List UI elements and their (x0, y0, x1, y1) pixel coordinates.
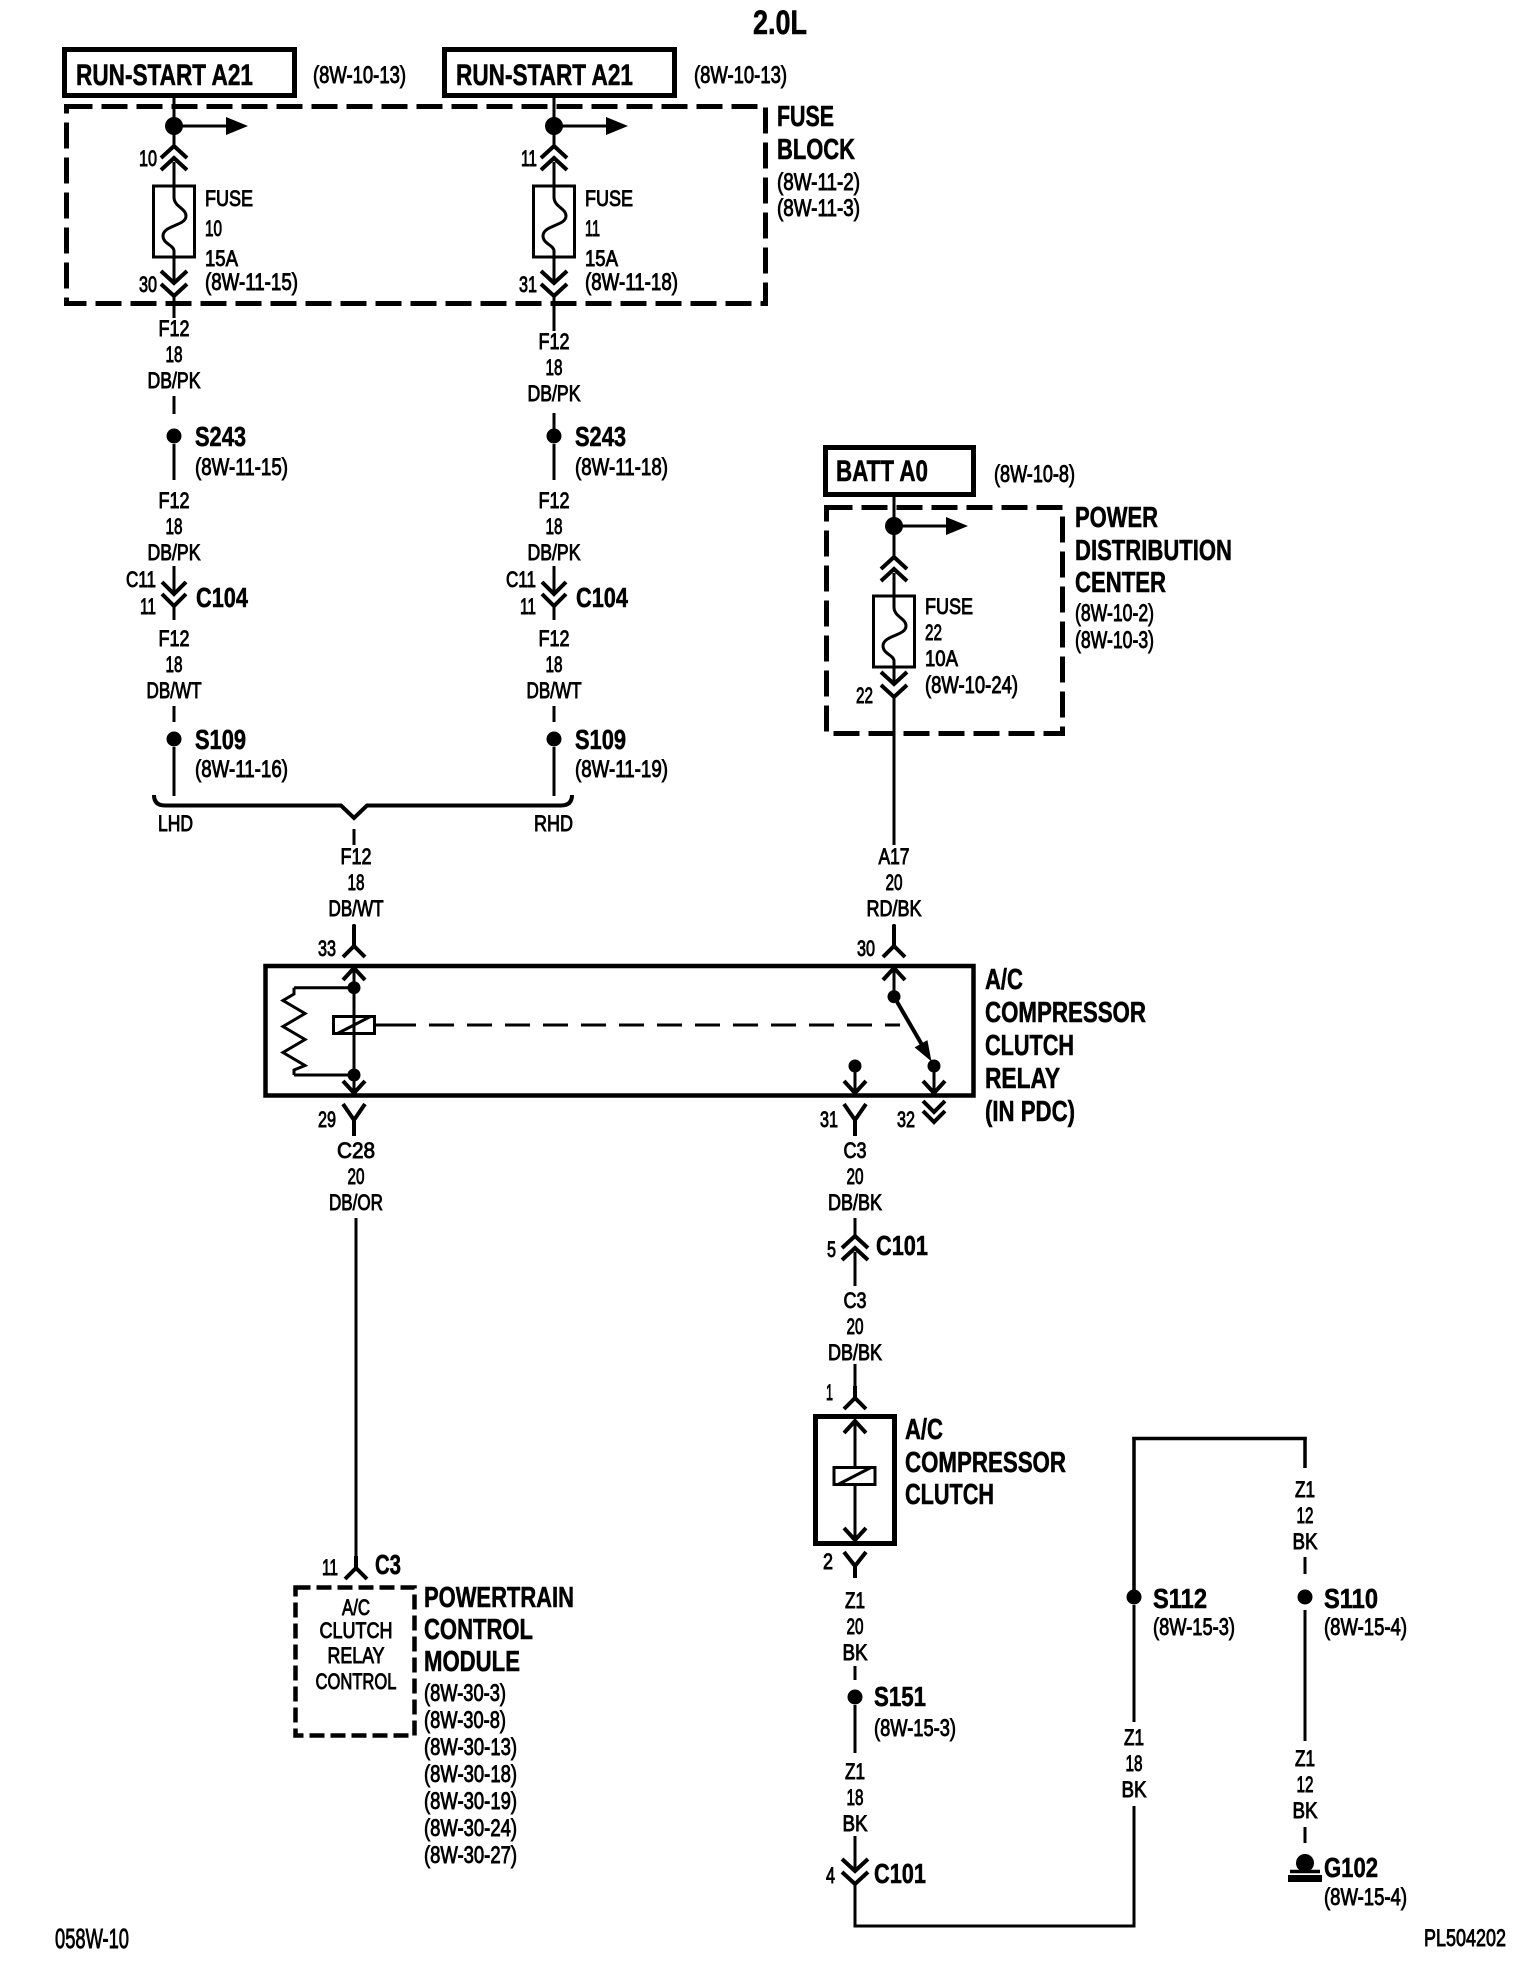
wire below S151 (854, 1705, 857, 1753)
svg-text:(8W-30-19): (8W-30-19) (424, 1788, 517, 1815)
wire pin11 to fuse 11 (553, 162, 556, 186)
svg-text:BK: BK (843, 1640, 868, 1665)
svg-text:(8W-10-8): (8W-10-8) (994, 461, 1075, 488)
wire Z1 to C101 pin 4 (854, 1836, 857, 1871)
svg-text:18: 18 (166, 514, 183, 539)
svg-text:Z1: Z1 (845, 1759, 865, 1784)
svg-text:A17: A17 (879, 844, 910, 869)
svg-text:S243: S243 (195, 421, 246, 452)
relay pin 32 internal stem (933, 1066, 936, 1093)
svg-text:(8W-10-3): (8W-10-3) (1075, 627, 1154, 654)
svg-text:RUN-START A21: RUN-START A21 (76, 59, 253, 92)
wire dashed segment above G102 (1304, 1827, 1307, 1843)
arrow feed continuation (PDC) (894, 525, 950, 528)
svg-text:S110: S110 (1324, 1583, 1378, 1614)
svg-text:20: 20 (847, 1314, 864, 1339)
pin 29 connector (out of relay) (343, 1104, 365, 1136)
relay switch common dot (888, 990, 901, 1003)
power distribution center boundary (dashed) (827, 508, 1063, 734)
wire RD/BK to relay pin 30 (893, 924, 896, 935)
svg-text:22: 22 (925, 620, 942, 645)
relay coil element (353, 988, 356, 1075)
relay coil bottom node dot (348, 1069, 361, 1082)
svg-text:(8W-30-8): (8W-30-8) (424, 1707, 506, 1734)
svg-text:C104: C104 (576, 582, 628, 613)
pin 2 connector (out of clutch) (844, 1552, 866, 1578)
wire DB/PK to C104 left (173, 566, 176, 594)
svg-text:(8W-10-13): (8W-10-13) (313, 62, 406, 89)
svg-text:11: 11 (140, 594, 156, 619)
relay suppression resistor (294, 986, 354, 989)
svg-text:DB/WT: DB/WT (329, 896, 384, 921)
pin 10 connector chevrons (161, 146, 187, 158)
pin 33 connector (into relay) (343, 925, 365, 957)
svg-text:(8W-11-16): (8W-11-16) (195, 756, 288, 783)
svg-text:COMPRESSOR: COMPRESSOR (985, 997, 1146, 1029)
svg-text:S243: S243 (575, 421, 626, 452)
svg-text:S109: S109 (195, 724, 246, 755)
svg-text:(8W-11-19): (8W-11-19) (575, 756, 668, 783)
svg-text:(8W-15-4): (8W-15-4) (1324, 1884, 1407, 1911)
wire S109 left to brace (173, 747, 176, 796)
connector C104 left chevrons (162, 582, 186, 594)
svg-text:10A: 10A (925, 646, 958, 671)
wire DB/PK to C104 right (553, 566, 556, 594)
svg-text:C11: C11 (506, 567, 536, 592)
svg-text:(8W-10-2): (8W-10-2) (1075, 600, 1154, 627)
svg-text:S112: S112 (1153, 1583, 1207, 1614)
svg-text:20: 20 (847, 1614, 864, 1639)
pin 11 connector chevrons (541, 146, 567, 158)
svg-text:(8W-11-2): (8W-11-2) (777, 169, 860, 196)
svg-text:CENTER: CENTER (1075, 567, 1166, 599)
svg-text:CONTROL: CONTROL (316, 1669, 397, 1694)
wire dashed segment above S151 (854, 1666, 857, 1680)
svg-text:C101: C101 (874, 1858, 926, 1889)
svg-text:CLUTCH: CLUTCH (320, 1618, 393, 1643)
wire S109 right to brace (553, 747, 556, 796)
relay switch contact dot (pin 32) (928, 1060, 941, 1073)
arrow feed continuation (right) (554, 125, 610, 128)
relay coil top node dot (348, 981, 361, 994)
svg-text:20: 20 (886, 870, 903, 895)
svg-text:2: 2 (823, 1549, 833, 1574)
svg-text:15A: 15A (585, 246, 618, 271)
node junction dot (fuse block feed, left) (165, 117, 183, 135)
pin 31 connector (out of relay) (844, 1104, 866, 1136)
svg-text:POWER: POWER (1075, 502, 1158, 534)
svg-text:(8W-30-27): (8W-30-27) (424, 1842, 517, 1869)
wire from RUN-START A21 left to node (173, 96, 176, 146)
wire DB/BK to C101 pin 5 (854, 1218, 857, 1236)
splice S151 (848, 1690, 863, 1705)
wire pin 30 through fuse block edge (173, 296, 176, 318)
wire dashed segment above S243 left (173, 396, 176, 414)
svg-text:Z1: Z1 (1295, 1746, 1315, 1771)
pin 30 connector (into relay) (883, 925, 905, 957)
wire pin10 to fuse 10 (173, 162, 176, 186)
svg-text:10: 10 (205, 216, 222, 241)
splice S109 (right) (547, 732, 562, 747)
svg-text:FUSE: FUSE (777, 101, 834, 133)
svg-text:29: 29 (318, 1107, 336, 1132)
svg-text:18: 18 (348, 870, 365, 895)
wire DB/WT to relay pin 33 (353, 924, 356, 935)
svg-text:18: 18 (166, 342, 183, 367)
wire fuse 11 to pin 31 (553, 257, 556, 283)
svg-text:11: 11 (520, 594, 536, 619)
svg-text:11: 11 (585, 216, 600, 241)
node junction dot (PDC feed) (885, 517, 903, 535)
connector C101 (pin 5) chevrons (842, 1236, 868, 1248)
svg-text:12: 12 (1297, 1503, 1314, 1528)
svg-text:BATT A0: BATT A0 (836, 455, 928, 488)
wire fuse 10 to pin 30 (173, 257, 176, 283)
svg-text:33: 33 (318, 936, 336, 961)
svg-text:C3: C3 (844, 1288, 867, 1313)
svg-text:RHD: RHD (534, 811, 573, 836)
wire pin 22 through PDC edge (893, 697, 896, 845)
svg-text:15A: 15A (205, 246, 238, 271)
svg-text:F12: F12 (159, 316, 190, 341)
fuse 11 15A symbol (534, 186, 575, 257)
pin 22 connector chevrons (881, 672, 907, 684)
powertrain control module boundary (dashed) (296, 1588, 415, 1736)
svg-text:RD/BK: RD/BK (867, 896, 922, 921)
svg-text:FUSE: FUSE (205, 186, 253, 211)
svg-text:LHD: LHD (158, 811, 193, 836)
svg-text:30: 30 (857, 936, 875, 961)
connector C101 (pin 4) chevrons (842, 1859, 868, 1871)
svg-text:4: 4 (826, 1863, 835, 1888)
wire C101 pin 4 down to ground bus (854, 1884, 857, 1928)
svg-text:Z1: Z1 (845, 1588, 865, 1613)
wire top link right riser (1303, 1437, 1307, 1468)
svg-text:18: 18 (546, 652, 563, 677)
svg-text:10: 10 (139, 146, 157, 171)
fuse block boundary (dashed) (67, 107, 766, 304)
wire below S243 left (173, 444, 176, 480)
svg-text:18: 18 (166, 652, 183, 677)
svg-text:(8W-30-13): (8W-30-13) (424, 1734, 517, 1761)
svg-text:S109: S109 (575, 724, 626, 755)
svg-text:Z1: Z1 (1295, 1477, 1315, 1502)
svg-text:30: 30 (139, 272, 157, 297)
wire top link left riser (1132, 1437, 1136, 1590)
clutch pin 1 internal chevron (844, 1421, 866, 1433)
svg-text:2.0L: 2.0L (753, 4, 807, 42)
A/C compressor clutch relay box (266, 966, 974, 1096)
wire from RUN-START A21 right to node (553, 96, 556, 146)
pin 31 connector chevrons (541, 271, 567, 283)
svg-text:11: 11 (521, 146, 537, 171)
ground G102 symbol (1296, 1854, 1314, 1872)
clutch coil element (834, 1468, 875, 1485)
svg-text:(8W-30-3): (8W-30-3) (424, 1680, 506, 1707)
svg-text:BK: BK (1122, 1777, 1147, 1802)
svg-text:11: 11 (322, 1555, 338, 1580)
brace merging LHD and RHD wires (154, 795, 572, 818)
wire dashed segment above S109 left (173, 706, 176, 722)
wire pin 31 through fuse block edge (553, 296, 556, 331)
wire to fuse 22 (893, 573, 896, 596)
svg-text:CLUTCH: CLUTCH (985, 1030, 1074, 1062)
relay switch blade (894, 997, 925, 1050)
clutch pin 2 internal chevron (844, 1528, 866, 1540)
svg-text:RUN-START A21: RUN-START A21 (456, 59, 633, 92)
svg-text:DB/OR: DB/OR (329, 1190, 383, 1215)
svg-text:18: 18 (546, 514, 563, 539)
wire below S243 right (553, 444, 556, 480)
svg-text:A/C: A/C (905, 1414, 943, 1446)
splice S110 (1298, 1590, 1313, 1605)
relay pin 30 internal chevron (883, 968, 905, 980)
power feed box BATT A0 (826, 448, 974, 495)
splice S243 (right) (547, 429, 562, 444)
svg-text:(8W-15-3): (8W-15-3) (1153, 1614, 1235, 1641)
svg-text:(8W-15-3): (8W-15-3) (874, 1715, 956, 1742)
power feed box RUN-START A21 (right) (445, 50, 675, 96)
svg-text:(8W-30-24): (8W-30-24) (424, 1815, 517, 1842)
svg-text:12: 12 (1297, 1772, 1314, 1797)
fuse 10 15A symbol (154, 186, 195, 257)
pin 1 connector (into clutch) (844, 1386, 866, 1409)
splice S243 (left) (167, 429, 182, 444)
svg-text:BK: BK (1293, 1529, 1318, 1554)
svg-text:(8W-15-4): (8W-15-4) (1324, 1614, 1407, 1641)
svg-text:C101: C101 (876, 1230, 928, 1261)
svg-text:DB/PK: DB/PK (148, 540, 201, 565)
svg-text:F12: F12 (159, 488, 190, 513)
node junction dot (fuse block feed, right) (545, 117, 563, 135)
svg-text:DB/PK: DB/PK (528, 540, 581, 565)
relay pin 33 internal chevron (343, 968, 365, 980)
svg-text:31: 31 (519, 272, 537, 297)
svg-text:RELAY: RELAY (985, 1063, 1060, 1095)
connector C104 right chevrons (542, 582, 566, 594)
fuse 22 10A symbol (874, 596, 915, 667)
wire dashed segment below brace (353, 829, 356, 845)
svg-text:BK: BK (1293, 1798, 1318, 1823)
svg-text:(8W-11-3): (8W-11-3) (777, 195, 860, 222)
relay control dashed line (375, 1024, 392, 1027)
svg-text:(8W-11-18): (8W-11-18) (585, 269, 678, 296)
svg-text:(8W-11-18): (8W-11-18) (575, 454, 668, 481)
svg-text:C104: C104 (196, 582, 248, 613)
A/C compressor clutch box (816, 1417, 895, 1544)
relay pin 29 internal chevron (353, 1075, 356, 1093)
arrow feed continuation (left) (174, 125, 230, 128)
svg-text:FUSE: FUSE (925, 594, 973, 619)
svg-text:C28: C28 (337, 1138, 375, 1163)
pin 30 connector chevrons (161, 271, 187, 283)
svg-text:DB/BK: DB/BK (828, 1190, 882, 1215)
svg-text:1: 1 (826, 1380, 833, 1405)
svg-text:(8W-30-18): (8W-30-18) (424, 1761, 517, 1788)
svg-text:A/C: A/C (342, 1595, 370, 1620)
svg-text:C3: C3 (844, 1138, 867, 1163)
svg-text:(8W-10-13): (8W-10-13) (694, 62, 787, 89)
relay pin 31 contact dot (849, 1060, 862, 1073)
svg-text:DISTRIBUTION: DISTRIBUTION (1075, 535, 1232, 567)
wire S112 to label (1133, 1605, 1136, 1722)
svg-text:31: 31 (820, 1107, 838, 1132)
svg-text:DB/PK: DB/PK (528, 381, 581, 406)
wire dashed segment above S110 (1304, 1557, 1307, 1574)
svg-text:058W-10: 058W-10 (55, 1923, 129, 1954)
svg-text:G102: G102 (1324, 1852, 1378, 1883)
svg-text:F12: F12 (341, 844, 372, 869)
svg-text:F12: F12 (539, 488, 570, 513)
svg-text:22: 22 (856, 683, 873, 708)
svg-text:COMPRESSOR: COMPRESSOR (905, 1447, 1066, 1479)
svg-text:POWERTRAIN: POWERTRAIN (424, 1582, 574, 1614)
svg-text:BK: BK (843, 1811, 868, 1836)
svg-text:20: 20 (847, 1164, 864, 1189)
wire dashed segment above S109 right (553, 706, 556, 722)
PCM pin 11 connector (345, 1556, 367, 1579)
wire dashed segment above S243 right (553, 413, 556, 429)
svg-text:DB/WT: DB/WT (527, 678, 582, 703)
svg-text:DB/BK: DB/BK (828, 1340, 882, 1365)
svg-text:F12: F12 (539, 329, 570, 354)
svg-text:Z1: Z1 (1124, 1725, 1144, 1750)
svg-text:FUSE: FUSE (585, 186, 633, 211)
svg-text:18: 18 (1126, 1751, 1143, 1776)
svg-text:32: 32 (897, 1107, 915, 1132)
svg-text:18: 18 (546, 355, 563, 380)
wire top link horizontal (1132, 1437, 1307, 1441)
svg-text:MODULE: MODULE (424, 1646, 520, 1678)
svg-text:(8W-10-24): (8W-10-24) (925, 672, 1018, 699)
svg-text:(8W-11-15): (8W-11-15) (205, 269, 298, 296)
svg-text:PL504202: PL504202 (1424, 1925, 1506, 1952)
svg-text:18: 18 (847, 1785, 864, 1810)
svg-text:F12: F12 (159, 626, 190, 651)
relay pin 31 internal stem (854, 1066, 857, 1093)
wire relay pin 29 to PCM (355, 1218, 358, 1556)
svg-text:S151: S151 (874, 1681, 926, 1712)
wire ground bus right riser (lower) (1133, 1806, 1136, 1928)
svg-text:CONTROL: CONTROL (424, 1614, 533, 1646)
svg-text:BLOCK: BLOCK (777, 134, 855, 166)
wire BATT A0 to node (893, 494, 896, 557)
wire fuse 22 to pin 22 (893, 667, 896, 684)
pin 32 connector chevrons (923, 1101, 945, 1112)
svg-text:(8W-11-15): (8W-11-15) (195, 454, 288, 481)
wire C101 to label (854, 1252, 857, 1286)
svg-text:F12: F12 (539, 626, 570, 651)
power feed box RUN-START A21 (left) (65, 50, 295, 96)
PDC fuse input chevrons (881, 557, 907, 569)
svg-text:(IN PDC): (IN PDC) (985, 1096, 1075, 1128)
wire below S110 (1304, 1610, 1307, 1741)
svg-text:C3: C3 (375, 1549, 401, 1580)
splice S112 (1127, 1590, 1142, 1605)
wire DB/BK to clutch pin 1 (854, 1364, 857, 1386)
svg-text:C11: C11 (126, 567, 156, 592)
svg-text:CLUTCH: CLUTCH (905, 1479, 994, 1511)
svg-text:DB/WT: DB/WT (147, 678, 202, 703)
ground bus bottom wire (854, 1925, 1136, 1928)
svg-text:20: 20 (348, 1164, 365, 1189)
splice S109 (left) (167, 732, 182, 747)
svg-text:A/C: A/C (985, 964, 1023, 996)
svg-text:DB/PK: DB/PK (148, 368, 201, 393)
svg-text:RELAY: RELAY (328, 1643, 385, 1668)
svg-text:5: 5 (827, 1237, 836, 1262)
